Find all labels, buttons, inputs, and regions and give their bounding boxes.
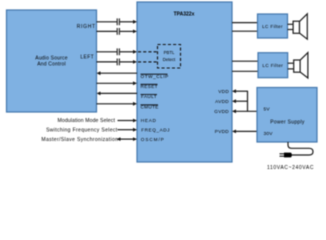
svg-text:CMUTE: CMUTE xyxy=(141,105,159,110)
wire LC1 to speaker line 1 xyxy=(288,23,294,25)
wire AVDD supply xyxy=(232,99,248,103)
capacitor input C left2 xyxy=(117,59,119,66)
block LC Filter 2 xyxy=(258,53,288,78)
pin label CMUTE xyxy=(141,105,159,110)
svg-text:5V: 5V xyxy=(264,107,271,113)
svg-text:LC Filter: LC Filter xyxy=(262,63,283,68)
svg-text:30V: 30V xyxy=(264,131,274,137)
pin label OTW_CLIP xyxy=(141,74,169,79)
svg-text:Power Supply: Power Supply xyxy=(270,119,305,125)
block LC Filter 1 xyxy=(258,14,288,38)
svg-text:PVDD: PVDD xyxy=(215,129,230,134)
svg-text:TPA322x: TPA322x xyxy=(174,12,195,18)
block Audio Source And Control xyxy=(7,10,97,112)
speaker SPK1 xyxy=(293,14,307,39)
wire TPA to LC filter 1 line 1 xyxy=(232,22,258,24)
wire CMUTE xyxy=(97,102,138,106)
svg-text:HEAD: HEAD xyxy=(141,118,157,123)
wire HEAD select xyxy=(118,119,138,123)
pin label RESET xyxy=(141,84,158,89)
wire LC2 to speaker line 1 xyxy=(288,62,294,64)
svg-text:110VAC~240VAC: 110VAC~240VAC xyxy=(267,165,314,171)
svg-text:RIGHT: RIGHT xyxy=(77,24,96,30)
svg-text:And Control: And Control xyxy=(37,62,66,68)
svg-text:AVDD: AVDD xyxy=(215,99,229,104)
wire RESET xyxy=(97,81,138,85)
wire VDD supply xyxy=(232,89,248,93)
wire FAULT xyxy=(97,92,138,96)
svg-text:Switching Frequency Select: Switching Frequency Select xyxy=(46,127,118,133)
wire PVDD supply 30V xyxy=(232,130,257,134)
svg-text:OTW_CLIP: OTW_CLIP xyxy=(141,74,169,79)
wire TPA to LC filter 2 line 2 xyxy=(232,70,258,72)
wire LEFT channel line 1 xyxy=(97,50,138,54)
svg-text:LEFT: LEFT xyxy=(80,55,94,61)
PBTL Detect dashed box xyxy=(158,45,181,69)
svg-text:OSCM/P: OSCM/P xyxy=(141,137,165,142)
wire OTW_CLIP xyxy=(97,71,138,75)
svg-text:FREQ_ADJ: FREQ_ADJ xyxy=(141,127,170,132)
svg-text:Detect: Detect xyxy=(163,57,176,62)
wire TPA to LC filter 2 line 1 xyxy=(232,60,258,62)
power cord xyxy=(288,142,313,155)
svg-text:FAULT: FAULT xyxy=(141,94,157,99)
wire RIGHT channel line 2 xyxy=(97,30,138,34)
svg-text:GVDD: GVDD xyxy=(214,109,229,114)
speaker SPK2 xyxy=(294,53,308,78)
svg-text:Audio Source: Audio Source xyxy=(35,55,67,61)
svg-text:RESET: RESET xyxy=(141,84,158,89)
wire LC1 to speaker line 2 xyxy=(288,29,294,31)
wire dashed left1 to PBTL Detect xyxy=(138,51,158,53)
wire LEFT channel line 2 xyxy=(97,60,138,64)
AC plug xyxy=(280,153,292,158)
wire RIGHT channel line 1 xyxy=(97,20,138,24)
wire FREQ_ADJ select xyxy=(118,128,138,132)
svg-text:Modulation Mode Select: Modulation Mode Select xyxy=(57,118,115,124)
capacitor input C right2 xyxy=(117,28,119,35)
pin label FAULT xyxy=(141,94,158,99)
svg-text:PBTL: PBTL xyxy=(164,50,175,55)
capacitor input C right1 xyxy=(117,18,119,25)
svg-text:LC Filter: LC Filter xyxy=(262,24,283,29)
wire LC2 to speaker line 2 xyxy=(288,68,294,70)
block Power Supply xyxy=(257,88,317,143)
svg-text:VDD: VDD xyxy=(218,89,229,94)
wire 5V bus vertical xyxy=(247,91,249,112)
block U1 TPA322x xyxy=(137,2,232,162)
wire GVDD supply 5V xyxy=(232,109,257,113)
wire TPA to LC filter 1 line 2 xyxy=(232,30,258,32)
capacitor input C left1 xyxy=(117,48,119,55)
svg-text:Master/Slave Synchronization: Master/Slave Synchronization xyxy=(41,137,118,143)
wire dashed left2 to PBTL Detect xyxy=(138,61,158,63)
wire OSCM/P sync double arrow xyxy=(117,137,138,141)
